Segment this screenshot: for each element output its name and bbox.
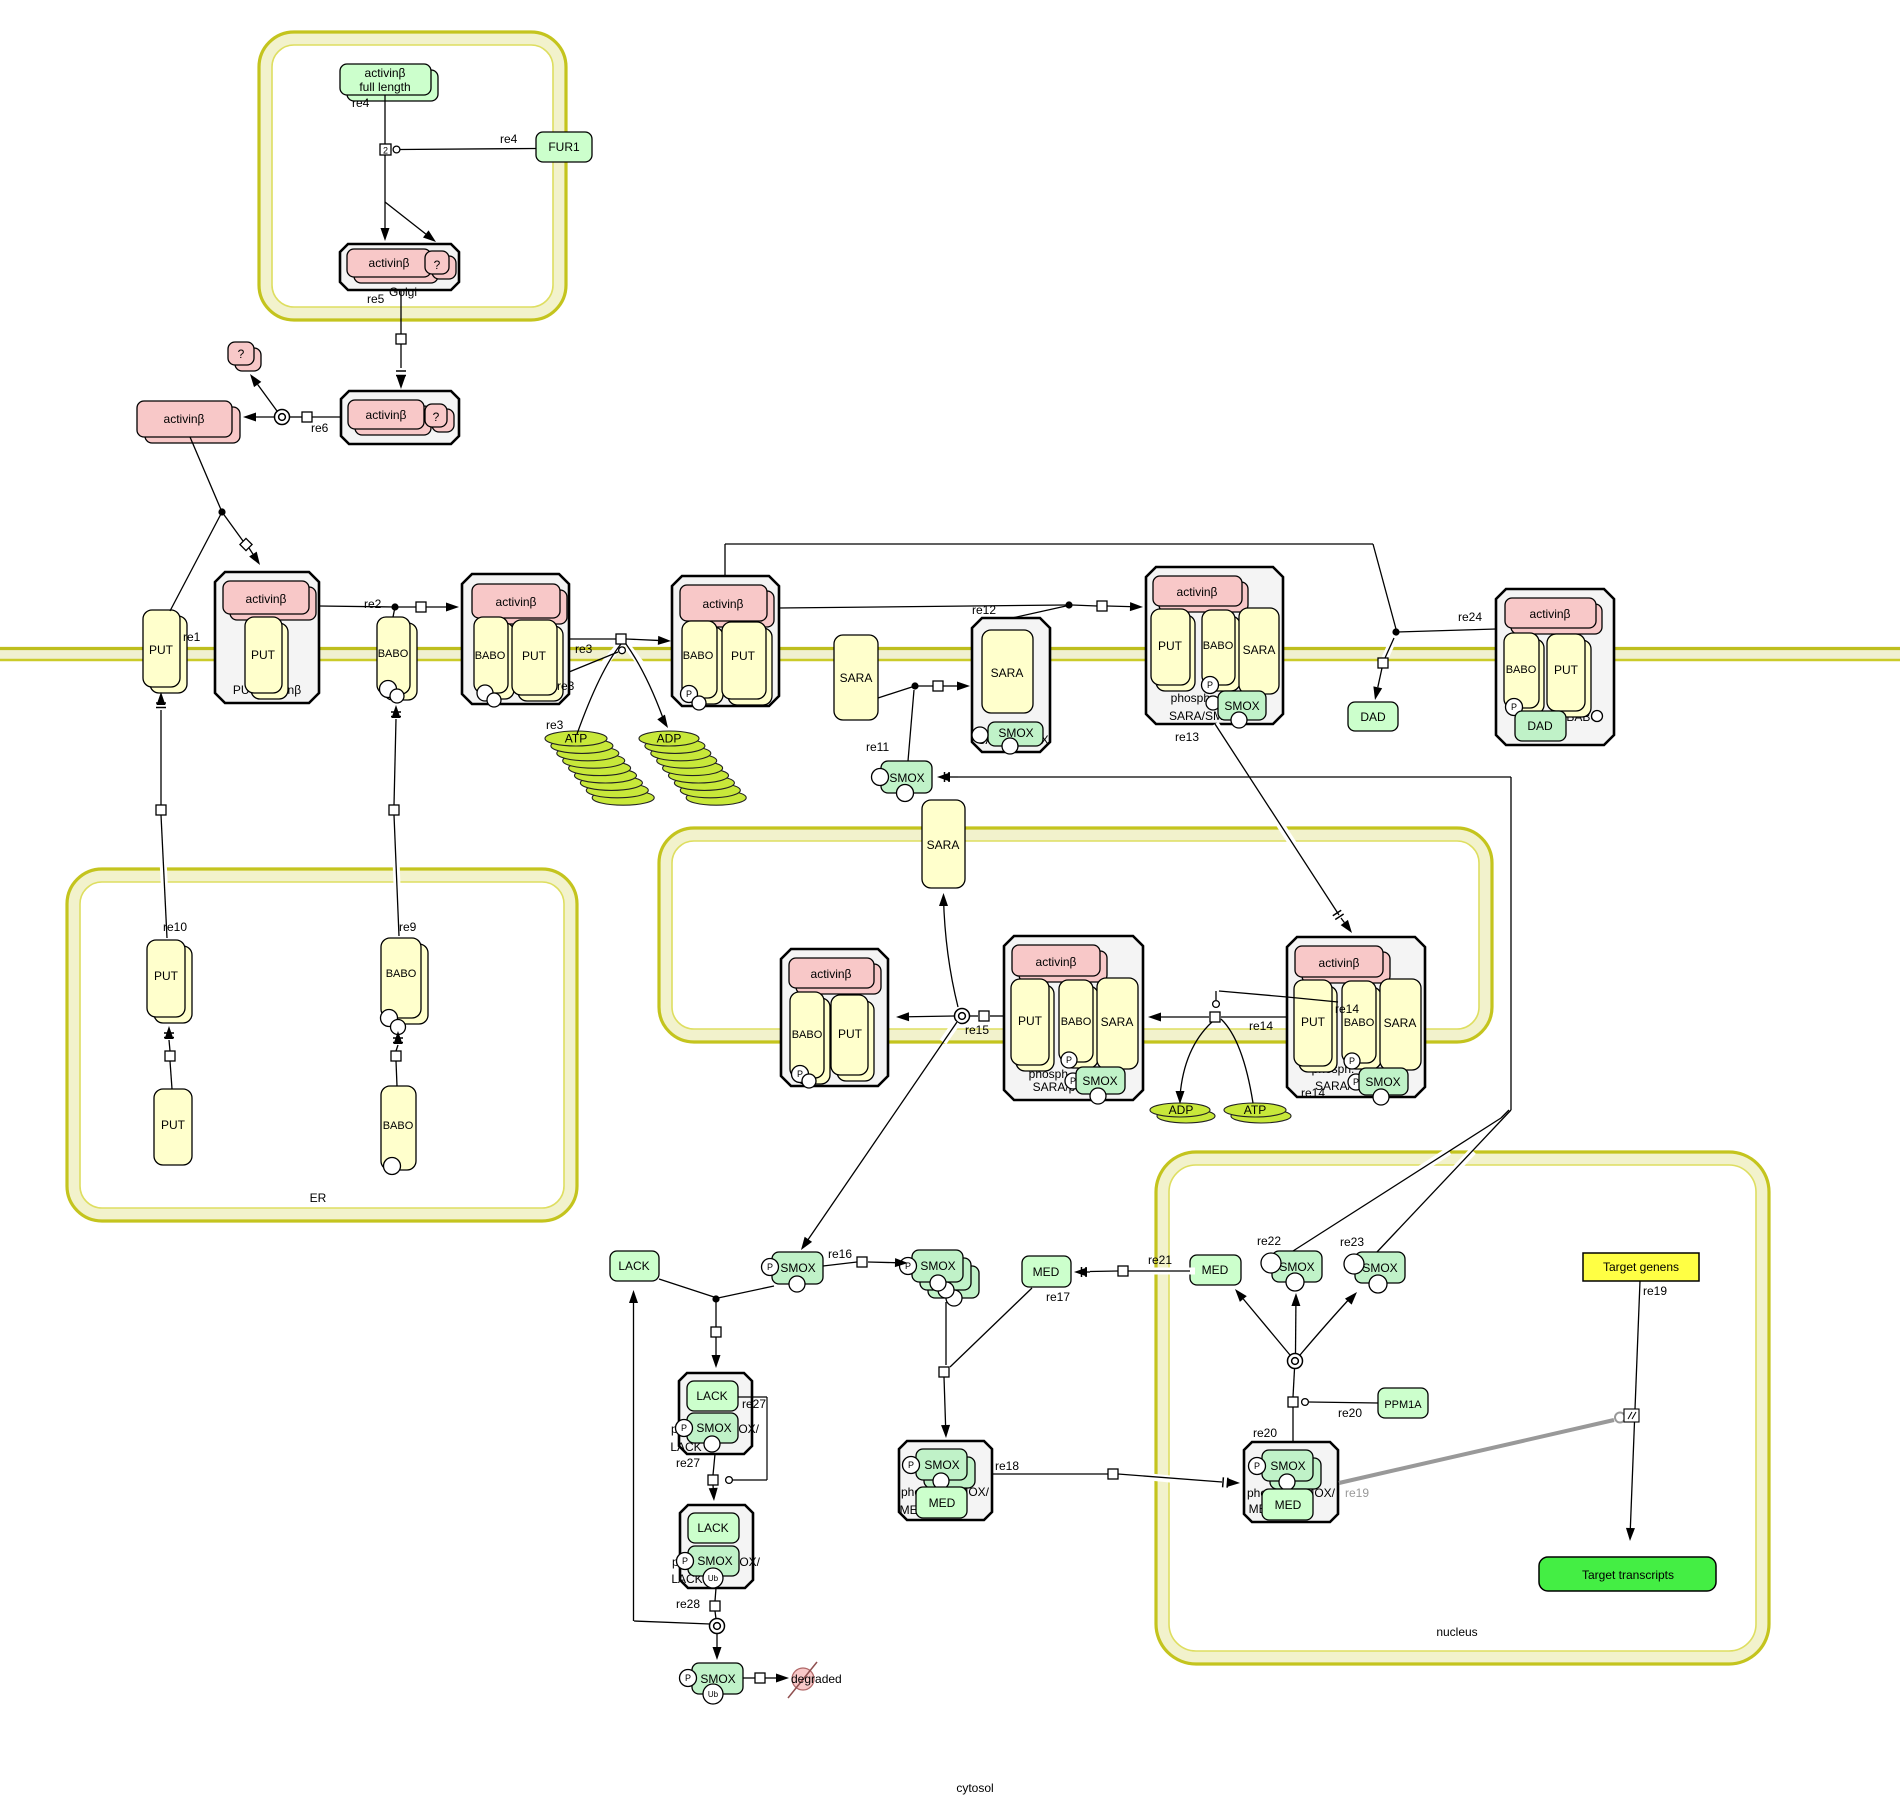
svg-text:ATP: ATP (1244, 1103, 1266, 1117)
svg-text:re27: re27 (676, 1456, 700, 1470)
svg-text:activinβ: activinβ (1036, 955, 1077, 969)
svg-text:ADP: ADP (657, 732, 682, 746)
svg-text:Target transcripts: Target transcripts (1582, 1568, 1674, 1582)
svg-text:SARA: SARA (927, 838, 960, 852)
svg-text:DAD: DAD (1360, 710, 1386, 724)
svg-text:BABO: BABO (683, 650, 714, 662)
svg-text:SMOX: SMOX (1365, 1075, 1400, 1089)
svg-text:activinβ: activinβ (1530, 607, 1571, 621)
svg-text:MED: MED (1275, 1498, 1302, 1512)
svg-text:PUT: PUT (154, 969, 179, 983)
svg-text:activinβ: activinβ (1177, 585, 1218, 599)
svg-text:re18: re18 (995, 1459, 1019, 1473)
svg-text:SMOX: SMOX (889, 771, 924, 785)
svg-text:SARA/SM: SARA/SM (1169, 709, 1223, 723)
svg-text:BABO: BABO (378, 648, 409, 660)
svg-text:?: ? (238, 347, 245, 361)
svg-text:re20: re20 (1338, 1406, 1362, 1420)
svg-text:SMOX: SMOX (780, 1261, 815, 1275)
svg-text:P: P (1511, 702, 1517, 712)
svg-text:BABO: BABO (792, 1029, 823, 1041)
svg-text:SARA: SARA (840, 671, 873, 685)
svg-text:PUT: PUT (149, 643, 174, 657)
svg-text:BABO: BABO (475, 650, 506, 662)
svg-text:BABO: BABO (386, 968, 417, 980)
svg-text:PPM1A: PPM1A (1384, 1399, 1422, 1411)
svg-text:BABO: BABO (1344, 1017, 1375, 1029)
svg-text:Ub: Ub (708, 1690, 719, 1699)
svg-text:re1: re1 (183, 630, 201, 644)
svg-text:P: P (1070, 1076, 1076, 1086)
svg-text:SMOX: SMOX (1082, 1074, 1117, 1088)
svg-text:cytosol: cytosol (956, 1781, 993, 1795)
svg-text:re4: re4 (352, 96, 370, 110)
svg-text:PUT: PUT (522, 649, 547, 663)
svg-text:BABO: BABO (1506, 664, 1537, 676)
svg-text:re3: re3 (575, 642, 593, 656)
svg-text:PUT: PUT (1301, 1015, 1326, 1029)
svg-text:activinβ: activinβ (369, 256, 410, 270)
svg-text:re14: re14 (1301, 1086, 1325, 1100)
svg-text:SMOX: SMOX (920, 1259, 955, 1273)
svg-text:activinβ: activinβ (496, 595, 537, 609)
svg-text:P: P (681, 1423, 687, 1433)
svg-text:re14: re14 (1335, 1002, 1359, 1016)
svg-text:re3: re3 (557, 679, 575, 693)
svg-text:?: ? (434, 258, 441, 272)
svg-text:FUR1: FUR1 (548, 140, 580, 154)
svg-text:re2: re2 (364, 597, 382, 611)
svg-text:P: P (1353, 1077, 1359, 1087)
svg-text:re22: re22 (1257, 1234, 1281, 1248)
svg-text:re19: re19 (1345, 1486, 1369, 1500)
svg-text:Target genens: Target genens (1603, 1260, 1679, 1274)
svg-text:P: P (908, 1460, 914, 1470)
svg-text:activinβ: activinβ (1319, 956, 1360, 970)
svg-text:SMOX: SMOX (1279, 1260, 1314, 1274)
svg-text:SMOX: SMOX (700, 1672, 735, 1686)
svg-text:P: P (767, 1262, 773, 1272)
svg-text:re12: re12 (972, 603, 996, 617)
svg-text:re5: re5 (367, 292, 385, 306)
svg-text:SARA: SARA (1384, 1016, 1417, 1030)
svg-text:ER: ER (310, 1191, 327, 1205)
svg-text:PUT: PUT (1554, 663, 1579, 677)
svg-text:P: P (1254, 1461, 1260, 1471)
svg-text:SMOX: SMOX (998, 726, 1033, 740)
svg-text:P: P (1207, 680, 1213, 690)
svg-text:re14: re14 (1249, 1019, 1273, 1033)
svg-text:P: P (686, 689, 692, 699)
svg-text:re17: re17 (1046, 1290, 1070, 1304)
svg-text:re20: re20 (1253, 1426, 1277, 1440)
svg-text:re24: re24 (1458, 610, 1482, 624)
svg-text:re23: re23 (1340, 1235, 1364, 1249)
svg-text:SARA: SARA (1243, 643, 1276, 657)
svg-text:P: P (1349, 1056, 1355, 1066)
svg-text:nucleus: nucleus (1436, 1625, 1477, 1639)
svg-text:re9: re9 (399, 920, 417, 934)
svg-text:activinβ: activinβ (366, 408, 407, 422)
svg-text:Ub: Ub (708, 1574, 719, 1583)
svg-text:re10: re10 (163, 920, 187, 934)
svg-text:SMOX: SMOX (1224, 699, 1259, 713)
svg-text:ATP: ATP (565, 732, 587, 746)
svg-text:SMOX: SMOX (1270, 1459, 1305, 1473)
svg-text:PUT: PUT (838, 1027, 863, 1041)
svg-text:re28: re28 (676, 1597, 700, 1611)
svg-text:PUT: PUT (161, 1118, 186, 1132)
svg-text:activinβ: activinβ (703, 597, 744, 611)
svg-text:2: 2 (383, 146, 388, 156)
svg-text:BABO: BABO (1203, 640, 1234, 652)
svg-text:PUT: PUT (1018, 1014, 1043, 1028)
svg-text:LACK: LACK (696, 1389, 727, 1403)
svg-text:re11: re11 (866, 740, 889, 754)
svg-text:re21: re21 (1148, 1253, 1172, 1267)
svg-text:?: ? (433, 410, 440, 424)
svg-text:re6: re6 (311, 421, 329, 435)
svg-text:PUT: PUT (251, 648, 276, 662)
svg-text:SARA: SARA (991, 666, 1024, 680)
svg-text:PUT: PUT (1158, 639, 1183, 653)
svg-text:re19: re19 (1643, 1284, 1667, 1298)
svg-text:re3: re3 (546, 718, 564, 732)
svg-text:activinβ: activinβ (365, 66, 406, 80)
svg-text:re16: re16 (828, 1247, 852, 1261)
svg-text:activinβ: activinβ (246, 592, 287, 606)
svg-text:re27: re27 (742, 1397, 766, 1411)
svg-text:LACK: LACK (697, 1521, 728, 1535)
svg-text:BABO: BABO (1061, 1016, 1092, 1028)
svg-text:MED: MED (1202, 1263, 1229, 1277)
svg-text:ADP: ADP (1169, 1103, 1194, 1117)
svg-text:activinβ: activinβ (811, 967, 852, 981)
svg-text:MED: MED (1033, 1265, 1060, 1279)
svg-text:SMOX: SMOX (1362, 1261, 1397, 1275)
svg-text:BABO: BABO (383, 1120, 414, 1132)
svg-text:P: P (685, 1673, 691, 1683)
svg-text:SMOX: SMOX (924, 1458, 959, 1472)
svg-text:LACK: LACK (618, 1259, 649, 1273)
svg-text:P: P (1066, 1055, 1072, 1065)
svg-text:P: P (682, 1556, 688, 1566)
svg-text:DAD: DAD (1527, 719, 1553, 733)
svg-text:Golgi: Golgi (389, 285, 417, 299)
svg-text:activinβ: activinβ (164, 412, 205, 426)
svg-text:re4: re4 (500, 132, 518, 146)
svg-text:full length: full length (359, 80, 410, 94)
svg-text:re13: re13 (1175, 730, 1199, 744)
svg-text:PUT: PUT (731, 649, 756, 663)
svg-text:SMOX: SMOX (697, 1554, 732, 1568)
svg-text:re15: re15 (965, 1023, 989, 1037)
svg-text:SARA: SARA (1101, 1015, 1134, 1029)
svg-text:degraded: degraded (791, 1672, 842, 1686)
svg-text:SMOX: SMOX (696, 1421, 731, 1435)
svg-text:MED: MED (929, 1496, 956, 1510)
